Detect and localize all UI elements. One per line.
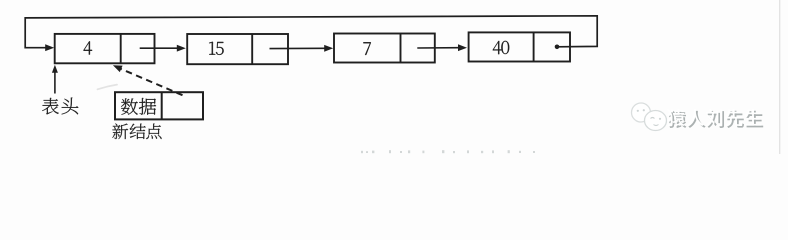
node A box (55, 34, 155, 63)
label 表头 char 头 (62, 98, 79, 115)
watermark char 先 (725, 109, 742, 126)
watermark shadow char 刘 (708, 111, 724, 128)
label 新结点 char 新 (112, 124, 128, 140)
watermark char 人 (686, 109, 703, 126)
new node divider (161, 92, 163, 119)
watermark shadow char 生 (746, 111, 763, 128)
arrowhead into head node A (45, 44, 54, 51)
node C divider (400, 34, 402, 63)
label 表头 char 表 (42, 98, 59, 115)
wire: circular back-link from node D pointer to head node (25, 16, 597, 48)
watermark char 生 (744, 109, 761, 126)
watermark shadow char 人 (688, 111, 705, 128)
node D value label 40 (493, 41, 502, 54)
node A divider (120, 34, 122, 63)
watermark shadow char 先 (727, 111, 744, 128)
wire: dashed insert arrow from new node to node A (120, 68, 183, 95)
wire: head pointer arrow (biao tou) up into node A (54, 72, 56, 94)
label 新结点 char 点 (146, 124, 161, 139)
watermark char 刘 (706, 109, 722, 126)
junction dot at node D pointer origin (555, 45, 560, 50)
watermark shadow char 猿 (669, 111, 687, 128)
node C value label 7 (363, 42, 370, 55)
new node data label char 据 (139, 98, 156, 115)
watermark char 猿 (667, 109, 685, 126)
faint pencil streak (98, 85, 118, 90)
watermark icon: small cartoon bubble (632, 103, 651, 122)
node C box (334, 34, 435, 63)
new node box (115, 92, 203, 119)
node A value label 4 (84, 41, 93, 54)
node B divider (251, 34, 253, 64)
label 新结点 char 结 (130, 124, 146, 139)
watermark icon: large cartoon bubble (645, 111, 667, 131)
node D divider (533, 32, 535, 61)
wire: pointer arrow node B to node C (270, 47, 326, 49)
wire: pointer arrow node A to node B (140, 47, 178, 49)
new node data label char 数 (121, 98, 138, 114)
scan page right edge (779, 0, 781, 154)
node B value label 15 (209, 42, 215, 55)
wire: pointer arrow node C to node D (417, 47, 458, 49)
cut-off caption text remnants at bottom (361, 151, 363, 153)
node B box (187, 34, 288, 64)
node D box (469, 32, 570, 61)
